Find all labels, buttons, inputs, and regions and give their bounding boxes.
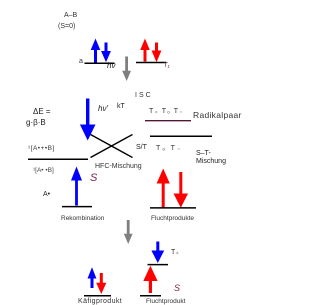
svg-text:g·β·B: g·β·B <box>26 118 46 127</box>
svg-text:¹[A• •B]: ¹[A• •B] <box>33 167 54 174</box>
blue spin-up arrow (top pair) <box>91 39 101 63</box>
svg-text:Fluchtprodukt: Fluchtprodukt <box>146 298 186 305</box>
level line under long red arrows <box>150 207 196 209</box>
svg-text:T₁: T₁ <box>164 62 170 69</box>
svg-text:(S=0): (S=0) <box>58 23 75 30</box>
label: spin mixing (right block two lines) <box>196 150 226 165</box>
svg-text:a: a <box>79 58 83 65</box>
big blue down arrow (electron transition) <box>80 99 96 141</box>
long red up arrow (right transition) <box>157 169 170 208</box>
svg-text:ISC: ISC <box>135 92 153 99</box>
svg-text:hν: hν <box>107 61 115 70</box>
svg-text:k​T: k​T <box>117 103 126 110</box>
svg-text:Rekombination: Rekombination <box>61 215 105 222</box>
gray arrow: photolysis (top, downward) <box>122 57 131 82</box>
S-T crossing line (rising) <box>91 135 133 158</box>
svg-text:Fluchtprodukte: Fluchtprodukte <box>151 215 194 222</box>
red spin-down arrow (top pair) <box>152 43 162 63</box>
maroon triplet level line <box>145 120 191 122</box>
svg-text:A•: A• <box>43 191 51 198</box>
bottom-left level line (cage product) <box>84 295 111 297</box>
small blue down arrow (escape electron) <box>151 242 164 264</box>
blue spin-down arrow (top pair) <box>101 43 111 63</box>
bottom-right level line (escape product) <box>140 295 161 297</box>
svg-text:ΔE =: ΔE = <box>33 107 51 116</box>
svg-text:¹[A•+•B]: ¹[A•+•B] <box>28 145 55 152</box>
svg-text:A–B: A–B <box>64 12 78 19</box>
level line under small blue down arrow <box>148 264 169 266</box>
red spin-down arrow (bottom pair) <box>96 273 106 294</box>
big red up arrow (bottom right) <box>143 266 157 293</box>
svg-text:hν′: hν′ <box>98 104 108 113</box>
long blue up arrow (left transition) <box>71 167 82 206</box>
svg-text:Mischung: Mischung <box>196 158 226 165</box>
svg-text:Radikalpaar: Radikalpaar <box>193 110 242 120</box>
svg-text:T₀ T₋: T₀ T₋ <box>156 145 183 152</box>
left singlet level line <box>28 158 88 160</box>
svg-text:S: S <box>174 283 180 293</box>
S-T crossing line (falling) <box>91 135 133 158</box>
long red down arrow (right transition) <box>174 172 189 208</box>
svg-text:Käfigprodukt: Käfigprodukt <box>78 298 122 305</box>
svg-text:S–T-: S–T- <box>196 150 211 157</box>
svg-text:T₊: T₊ <box>171 249 179 256</box>
svg-text:HFC-Mischung: HFC-Mischung <box>95 163 142 170</box>
right triplet level line <box>150 135 212 137</box>
gray arrow: recombination (bottom, downward) <box>124 220 133 244</box>
level line under blue spin pair <box>85 62 115 64</box>
svg-text:S/T: S/T <box>136 144 148 151</box>
blue spin-up arrow (bottom pair) <box>88 267 97 288</box>
red spin-up arrow (top pair) <box>140 39 150 62</box>
level line under red spin pair <box>136 62 167 64</box>
svg-text:S: S <box>90 172 98 184</box>
label: precursor molecule (two lines, top-left) <box>58 12 78 30</box>
svg-text:T₊ T₀ T₋: T₊ T₀ T₋ <box>149 108 184 115</box>
label: delta E (left block, two lines) <box>26 107 51 127</box>
level line under long blue arrow <box>62 206 92 208</box>
